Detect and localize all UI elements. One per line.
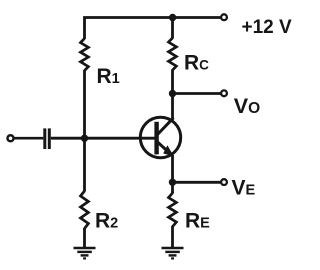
terminal VE	[221, 179, 227, 185]
wire input to capacitor	[14, 137, 43, 140]
ground (right, below RE)	[162, 248, 184, 258]
wire emitter node to RE	[171, 182, 174, 193]
junction dot base node	[81, 135, 88, 142]
terminal Vo	[221, 90, 227, 96]
wire capacitor to transistor base	[51, 137, 155, 140]
wire transistor emitter to emitter node	[171, 155, 174, 182]
transistor Q1 (NPN)	[140, 117, 180, 157]
junction dot top Vcc node	[169, 14, 176, 21]
junction dot emitter node	[169, 179, 176, 186]
wire RC to collector node	[171, 70, 174, 94]
terminal +12V supply	[221, 14, 227, 20]
wire RE to ground	[171, 226, 174, 248]
svg-text:VE: VE	[232, 177, 256, 200]
capacitor C1 (input coupling), plates	[43, 128, 51, 149]
svg-text:R1: R1	[97, 65, 120, 88]
wire emitter node to VE terminal	[173, 181, 221, 184]
junction dot collector node	[169, 90, 176, 97]
wire top bus (Vcc rail)	[85, 18, 221, 40]
wire R2 to ground	[83, 228, 86, 248]
wire right rail top to RC	[171, 18, 174, 39]
svg-text:RE: RE	[185, 210, 210, 233]
resistor RE	[169, 193, 177, 227]
wire collector node to Vo terminal	[173, 92, 221, 95]
wire left rail base node to R2	[83, 138, 86, 191]
wire collector node to transistor collector	[171, 94, 174, 120]
resistor R1	[81, 39, 89, 71]
resistor R2	[81, 191, 89, 229]
resistor RC	[169, 38, 177, 70]
svg-text:R2: R2	[95, 210, 118, 233]
svg-text:VO: VO	[234, 94, 260, 118]
terminal input	[8, 135, 14, 141]
svg-text:RC: RC	[184, 52, 209, 75]
wire left rail R1 to base node	[83, 70, 86, 138]
svg-text:+12 V: +12 V	[242, 17, 293, 38]
ground (left, below R2)	[74, 248, 96, 258]
